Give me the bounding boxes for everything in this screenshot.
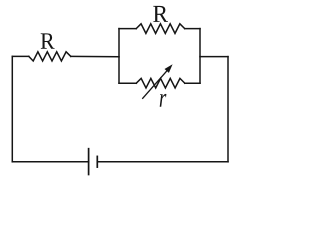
wire box top-right segment [185,28,200,30]
wire top-left horizontal (rail to R1) [12,55,29,57]
wire bottom-right (battery to rail) [97,161,228,163]
wire right vertical rail [227,57,229,162]
wire box top-left segment [119,28,136,30]
label R (for R2) [153,6,168,22]
wire parallel box left edge [118,29,120,84]
wire bottom-left (rail to battery) [12,161,88,163]
battery cell long plate (positive) [88,149,90,175]
wire box bottom-left segment [119,82,136,84]
resistor R1 [29,52,71,61]
wire parallel box right edge [199,29,201,84]
wire left vertical rail [11,56,13,161]
variable resistor r zigzag [136,78,185,88]
wire box bottom-right segment [185,82,200,84]
variable resistor r arrow shaft [143,70,168,98]
battery cell short plate (negative) [96,156,98,167]
resistor R2 [136,24,185,34]
variable resistor r arrow head [165,64,173,73]
label R (for R1) [41,33,55,48]
wire box to right rail [200,56,228,58]
label r [160,94,167,107]
wire R1 to parallel box [71,55,119,57]
